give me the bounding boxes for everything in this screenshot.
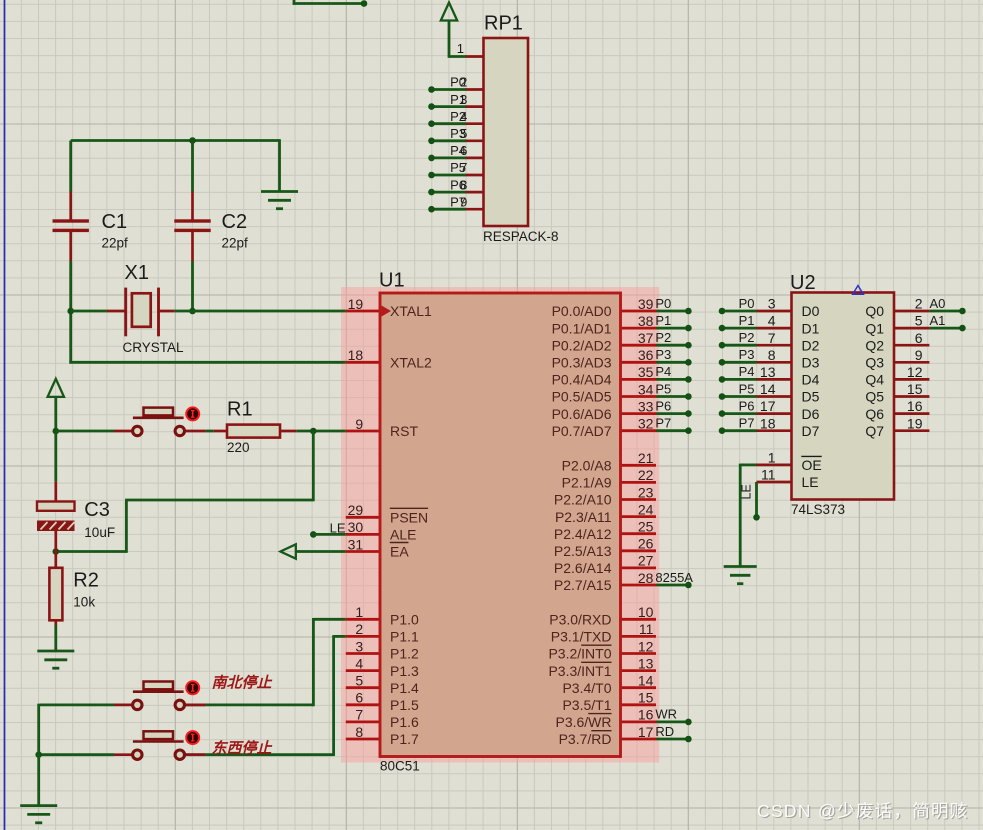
svg-text:29: 29 <box>348 502 364 518</box>
svg-text:27: 27 <box>638 553 654 569</box>
svg-text:Q4: Q4 <box>865 372 884 388</box>
svg-text:P0.5/AD5: P0.5/AD5 <box>552 389 612 405</box>
svg-text:P0.3/AD3: P0.3/AD3 <box>552 355 612 371</box>
svg-text:P0.1/AD1: P0.1/AD1 <box>552 320 612 336</box>
svg-text:P1.7: P1.7 <box>390 731 419 747</box>
svg-text:OE: OE <box>802 457 822 473</box>
svg-text:37: 37 <box>638 330 654 346</box>
svg-text:4: 4 <box>355 655 363 671</box>
svg-text:EA: EA <box>390 544 409 560</box>
svg-text:P2.3/A11: P2.3/A11 <box>555 509 612 525</box>
svg-text:12: 12 <box>907 364 923 380</box>
svg-text:4: 4 <box>768 313 776 329</box>
svg-text:RST: RST <box>390 423 418 439</box>
svg-text:32: 32 <box>638 416 654 432</box>
svg-text:D7: D7 <box>802 423 820 439</box>
svg-text:13: 13 <box>760 364 776 380</box>
svg-text:P1.6: P1.6 <box>390 714 419 730</box>
svg-text:C1: C1 <box>102 211 128 233</box>
svg-text:18: 18 <box>760 415 776 431</box>
svg-text:D6: D6 <box>802 406 820 422</box>
svg-text:Q2: Q2 <box>865 337 884 353</box>
svg-text:P3.0/RXD: P3.0/RXD <box>549 612 611 628</box>
svg-text:D3: D3 <box>802 355 820 371</box>
svg-text:P2: P2 <box>655 330 671 345</box>
svg-text:P7: P7 <box>739 416 755 431</box>
svg-text:22pf: 22pf <box>102 236 129 251</box>
svg-text:南北停止: 南北停止 <box>212 674 273 692</box>
svg-text:Q7: Q7 <box>865 423 884 439</box>
svg-text:P2.0/A8: P2.0/A8 <box>562 458 612 474</box>
svg-text:P2.2/A10: P2.2/A10 <box>554 492 612 508</box>
svg-text:P3.5/T1: P3.5/T1 <box>562 697 611 713</box>
svg-text:U1: U1 <box>379 270 405 292</box>
svg-text:A1: A1 <box>930 313 946 328</box>
svg-text:25: 25 <box>638 519 654 535</box>
svg-text:17: 17 <box>638 724 654 740</box>
svg-text:80C51: 80C51 <box>380 759 420 774</box>
svg-text:P0: P0 <box>655 296 671 311</box>
svg-text:P0.0/AD0: P0.0/AD0 <box>552 303 612 319</box>
svg-text:8: 8 <box>460 177 467 192</box>
svg-text:P1.4: P1.4 <box>390 680 419 696</box>
svg-text:5: 5 <box>355 673 363 689</box>
svg-text:D2: D2 <box>802 337 820 353</box>
svg-text:10uF: 10uF <box>84 525 115 540</box>
svg-text:1: 1 <box>457 41 464 56</box>
svg-text:P1.1: P1.1 <box>390 629 419 645</box>
svg-text:14: 14 <box>638 673 654 689</box>
svg-text:23: 23 <box>638 484 654 500</box>
svg-text:P3.3/INT1: P3.3/INT1 <box>548 663 611 679</box>
svg-text:14: 14 <box>760 381 776 397</box>
svg-text:P1.5: P1.5 <box>390 697 419 713</box>
svg-text:CRYSTAL: CRYSTAL <box>123 340 185 355</box>
svg-text:4: 4 <box>460 109 467 124</box>
svg-text:8255A: 8255A <box>655 570 693 585</box>
svg-text:P1.3: P1.3 <box>390 663 419 679</box>
svg-text:P2.4/A12: P2.4/A12 <box>554 526 612 542</box>
svg-text:D0: D0 <box>802 303 820 319</box>
svg-text:3: 3 <box>355 638 363 654</box>
svg-text:10k: 10k <box>73 595 95 610</box>
svg-text:15: 15 <box>638 690 654 706</box>
svg-text:P3.7/RD: P3.7/RD <box>559 731 612 747</box>
svg-text:U2: U2 <box>790 272 816 294</box>
svg-text:9: 9 <box>460 194 467 209</box>
svg-text:P1.0: P1.0 <box>390 612 419 628</box>
svg-text:74LS373: 74LS373 <box>791 502 845 517</box>
svg-text:P1: P1 <box>655 313 671 328</box>
svg-text:35: 35 <box>638 364 654 380</box>
svg-text:P3.2/INT0: P3.2/INT0 <box>548 646 611 662</box>
svg-text:RP1: RP1 <box>484 13 523 35</box>
svg-text:D4: D4 <box>802 372 820 388</box>
svg-text:RD: RD <box>655 724 674 739</box>
svg-text:LE: LE <box>740 484 754 499</box>
svg-text:RESPACK-8: RESPACK-8 <box>483 229 559 244</box>
svg-text:Q1: Q1 <box>865 320 884 336</box>
svg-text:P3: P3 <box>739 347 755 362</box>
svg-text:17: 17 <box>760 398 776 414</box>
svg-text:2: 2 <box>915 296 923 312</box>
svg-text:P5: P5 <box>739 381 755 396</box>
svg-text:220: 220 <box>227 440 250 455</box>
svg-text:WR: WR <box>655 707 677 722</box>
svg-text:22pf: 22pf <box>222 236 249 251</box>
svg-text:5: 5 <box>460 126 467 141</box>
svg-text:11: 11 <box>639 621 654 637</box>
svg-text:7: 7 <box>355 707 363 723</box>
svg-text:Q6: Q6 <box>865 406 884 422</box>
svg-text:LE: LE <box>330 521 346 536</box>
svg-text:21: 21 <box>638 450 654 466</box>
svg-text:D5: D5 <box>802 389 820 405</box>
svg-text:P1.2: P1.2 <box>390 646 419 662</box>
svg-text:9: 9 <box>355 416 363 432</box>
svg-text:1: 1 <box>768 450 776 466</box>
svg-text:15: 15 <box>907 381 923 397</box>
svg-text:36: 36 <box>638 347 654 363</box>
svg-text:XTAL1: XTAL1 <box>390 303 432 319</box>
svg-text:34: 34 <box>638 381 654 397</box>
svg-text:P0.7/AD7: P0.7/AD7 <box>552 423 612 439</box>
svg-text:C3: C3 <box>84 499 110 521</box>
svg-text:28: 28 <box>638 570 654 586</box>
svg-text:P3.6/WR: P3.6/WR <box>555 714 611 730</box>
svg-text:8: 8 <box>355 724 363 740</box>
svg-text:3: 3 <box>768 296 776 312</box>
svg-text:P2.6/A14: P2.6/A14 <box>554 560 612 576</box>
svg-text:31: 31 <box>348 536 364 552</box>
svg-text:C2: C2 <box>222 211 248 233</box>
svg-text:13: 13 <box>638 655 654 671</box>
svg-text:1: 1 <box>355 604 363 620</box>
svg-text:P2: P2 <box>739 330 755 345</box>
svg-text:6: 6 <box>355 690 363 706</box>
svg-text:Q3: Q3 <box>865 355 884 371</box>
svg-text:3: 3 <box>460 92 467 107</box>
svg-text:22: 22 <box>638 467 654 483</box>
svg-text:PSEN: PSEN <box>390 510 428 526</box>
svg-text:LE: LE <box>802 474 819 490</box>
svg-text:5: 5 <box>915 313 923 329</box>
svg-text:9: 9 <box>915 347 923 363</box>
svg-text:P6: P6 <box>655 398 671 413</box>
svg-text:R2: R2 <box>73 570 99 592</box>
svg-text:X1: X1 <box>125 262 149 284</box>
svg-text:2: 2 <box>355 621 363 637</box>
svg-text:P6: P6 <box>739 398 755 413</box>
svg-text:D1: D1 <box>802 320 820 336</box>
svg-text:33: 33 <box>638 398 654 414</box>
svg-text:Q0: Q0 <box>865 303 884 319</box>
svg-text:19: 19 <box>907 415 923 431</box>
svg-text:P0.2/AD2: P0.2/AD2 <box>552 337 612 353</box>
svg-text:12: 12 <box>638 638 654 654</box>
svg-text:24: 24 <box>638 501 654 517</box>
svg-text:2: 2 <box>460 75 467 90</box>
svg-text:P2.7/A15: P2.7/A15 <box>554 577 612 593</box>
svg-text:8: 8 <box>768 347 776 363</box>
svg-text:P5: P5 <box>655 381 671 396</box>
svg-text:16: 16 <box>907 398 923 414</box>
svg-text:XTAL2: XTAL2 <box>390 355 432 371</box>
svg-text:P3: P3 <box>655 347 671 362</box>
svg-text:P7: P7 <box>655 416 671 431</box>
svg-text:R1: R1 <box>227 399 253 421</box>
svg-text:7: 7 <box>768 330 776 346</box>
svg-text:19: 19 <box>348 296 364 312</box>
svg-text:7: 7 <box>460 160 467 175</box>
svg-text:39: 39 <box>638 296 654 312</box>
svg-text:P2.5/A13: P2.5/A13 <box>554 543 612 559</box>
svg-text:6: 6 <box>915 330 923 346</box>
svg-text:东西停止: 东西停止 <box>212 739 273 757</box>
svg-text:Q5: Q5 <box>865 389 884 405</box>
svg-text:P1: P1 <box>739 313 755 328</box>
svg-text:6: 6 <box>460 143 467 158</box>
svg-text:CSDN @少废话，简明赅: CSDN @少废话，简明赅 <box>757 801 969 821</box>
svg-text:P4: P4 <box>655 364 671 379</box>
svg-text:16: 16 <box>638 707 654 723</box>
svg-text:P4: P4 <box>739 364 755 379</box>
svg-text:A0: A0 <box>930 296 946 311</box>
svg-text:38: 38 <box>638 313 654 329</box>
svg-text:26: 26 <box>638 536 654 552</box>
svg-text:30: 30 <box>348 519 364 535</box>
svg-text:11: 11 <box>761 467 776 483</box>
svg-text:10: 10 <box>638 604 654 620</box>
svg-text:P0.4/AD4: P0.4/AD4 <box>552 372 612 388</box>
svg-text:18: 18 <box>348 347 364 363</box>
svg-text:P0: P0 <box>739 296 755 311</box>
svg-text:P3.1/TXD: P3.1/TXD <box>551 629 612 645</box>
svg-text:P0.6/AD6: P0.6/AD6 <box>552 406 612 422</box>
svg-text:P2.1/A9: P2.1/A9 <box>562 475 612 491</box>
svg-text:ALE: ALE <box>390 527 416 543</box>
svg-text:P3.4/T0: P3.4/T0 <box>562 680 611 696</box>
